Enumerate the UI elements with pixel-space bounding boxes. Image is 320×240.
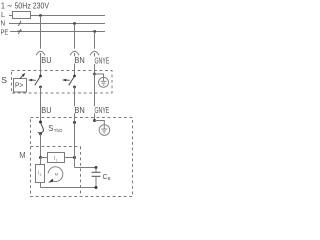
svg-text:M: M [19, 151, 25, 160]
wire winding 1 to node B [65, 157, 75, 159]
svg-text:PE: PE [1, 28, 9, 37]
wire L drop [40, 16, 42, 49]
node A [39, 156, 42, 159]
node on N [73, 22, 76, 25]
svg-text:BU: BU [41, 56, 51, 65]
wire BU into box [40, 53, 42, 76]
bottom rail wire [41, 187, 97, 189]
wire GNYE into box [94, 53, 96, 74]
pressure switch box S dashed [12, 71, 113, 94]
pressure sensor P> [14, 79, 27, 93]
label S_ThO [48, 123, 63, 133]
svg-text:N: N [1, 19, 6, 28]
svg-text:S: S [48, 123, 53, 133]
earth terminal circle 2 [99, 125, 110, 136]
svg-text:1 ∼ 50Hz 230V: 1 ∼ 50Hz 230V [1, 1, 49, 11]
earth terminal circle 1 [99, 77, 109, 87]
PE break slash [17, 29, 22, 34]
terminal node BU [39, 121, 42, 124]
wire L [9, 15, 105, 17]
motor compartment dashed partition top [31, 146, 81, 148]
wire BN node B [74, 123, 76, 168]
aux winding I2 [36, 165, 45, 183]
earth branch wire [95, 74, 104, 77]
label C_B [103, 172, 111, 181]
switch contact 1 [35, 75, 42, 89]
wire winding 2 to bottom rail [40, 183, 42, 188]
thermal switch S_ThO [38, 123, 44, 135]
svg-text:P>: P> [15, 83, 23, 90]
wire node A to winding 2 [40, 158, 42, 165]
motor compartment dashed partition right [80, 147, 82, 197]
node B [73, 156, 76, 159]
svg-text:S: S [1, 75, 7, 85]
svg-text:BN: BN [74, 56, 84, 65]
wire PE [10, 31, 105, 33]
wire node B to capacitor top [75, 167, 97, 169]
fuse F1 [13, 12, 31, 19]
svg-text:B: B [108, 176, 111, 181]
terminal node GNYE [93, 119, 96, 122]
svg-text:ThO: ThO [54, 128, 63, 133]
wire S_ThO to node A [40, 134, 42, 158]
node on PE [93, 30, 96, 33]
connector plug BN [70, 51, 79, 55]
wire N [9, 23, 105, 25]
connector plug GNYE [90, 51, 99, 55]
node GNYE in box [93, 73, 96, 76]
wire node A to winding 1 [41, 157, 48, 159]
motor symbol [48, 167, 63, 183]
switch contact 2 [69, 75, 76, 89]
wire BN below box [74, 87, 76, 123]
actuation arrow contact 2 [62, 79, 70, 82]
node on L [39, 14, 42, 17]
wire BN into box [74, 53, 76, 76]
appliance dashed box [31, 118, 133, 197]
svg-text:BN: BN [74, 106, 84, 115]
wire PE drop [94, 32, 96, 49]
main winding I1 [48, 153, 65, 163]
connector plug BU [36, 51, 45, 55]
terminal node BN [73, 121, 76, 124]
actuator arrow P> [20, 73, 25, 79]
svg-text:2: 2 [40, 173, 42, 177]
wire BU below box [40, 87, 42, 122]
capacitor C_B [92, 168, 101, 188]
actuation arrow contact 1 [28, 79, 36, 82]
wire GNYE through box [94, 74, 96, 121]
svg-text:1: 1 [56, 159, 58, 163]
svg-text:BU: BU [41, 106, 51, 115]
svg-text:M: M [55, 171, 58, 176]
node capacitor top [95, 166, 98, 169]
svg-text:GNYE: GNYE [95, 57, 110, 66]
wire N drop [74, 24, 76, 49]
node capacitor bottom [95, 186, 98, 189]
N break slash [18, 21, 21, 26]
earth branch wire 2 [95, 121, 105, 126]
svg-text:GNYE: GNYE [95, 106, 110, 115]
